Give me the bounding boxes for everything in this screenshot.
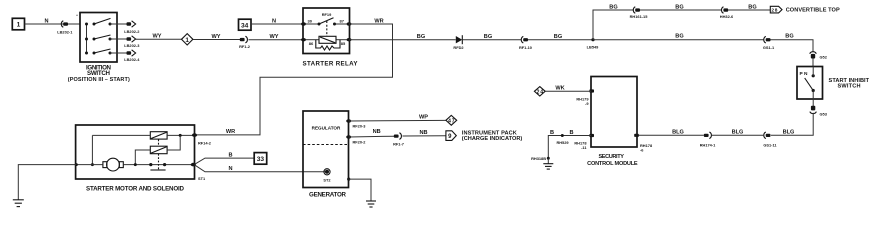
start inhibit switch xyxy=(797,67,823,100)
ignition switch pole 2 (row to LB202-3) xyxy=(93,35,127,41)
connector GS1-11 xyxy=(763,132,777,147)
node diamond 24 xyxy=(534,87,545,96)
svg-text:LB202-2: LB202-2 xyxy=(124,29,140,34)
ground (security module earth) xyxy=(543,158,553,169)
svg-text:WK: WK xyxy=(555,86,564,92)
wire BG from RF1-10 to junction LB549 xyxy=(528,39,593,41)
wire WY from LB202-3 to diamond 1 xyxy=(136,38,182,40)
pin 86 xyxy=(301,38,314,46)
pin 30 xyxy=(301,18,313,25)
svg-text:RF14-2: RF14-2 xyxy=(198,140,212,145)
wire to starter earth xyxy=(18,163,78,200)
svg-text:WR: WR xyxy=(226,129,235,135)
motor M1 (starter motor) xyxy=(103,158,123,171)
svg-text:BLG: BLG xyxy=(783,130,795,136)
wire B from RH178-11 to ground splice xyxy=(548,136,591,159)
wire WR from relay pin 87 to starter solenoid RF14-2 xyxy=(195,24,393,135)
pin RF14-2 xyxy=(192,133,212,145)
svg-text:WY: WY xyxy=(211,34,220,40)
wire BG from HH32-6 to node 28 xyxy=(728,9,770,11)
wire WY from RF1-2 to relay pin 86 xyxy=(249,39,304,41)
svg-text:BG: BG xyxy=(417,34,425,40)
junction dots on ignition bus xyxy=(85,23,88,26)
svg-text:WY: WY xyxy=(152,34,161,40)
wire BG from relay pin 85 to diode xyxy=(349,39,456,41)
label START INHIBIT SWITCH xyxy=(829,78,870,90)
node diamond 47 xyxy=(446,115,457,125)
svg-text:RH161-15: RH161-15 xyxy=(630,14,649,19)
wire BG from GS1-1 down to G52 xyxy=(771,40,814,52)
svg-text:WR: WR xyxy=(374,18,383,24)
relay switch contacts and blade xyxy=(306,18,348,26)
svg-text:STARTER MOTOR AND SOLENOID: STARTER MOTOR AND SOLENOID xyxy=(86,186,185,193)
ignition switch box xyxy=(76,13,117,63)
svg-text:33: 33 xyxy=(257,156,265,163)
pin 85 xyxy=(341,38,352,46)
svg-text:RF20-2: RF20-2 xyxy=(353,139,367,144)
ignition switch pole 1 (row to LB202-2) xyxy=(93,18,127,25)
pin ST2 xyxy=(323,169,331,183)
wire to generator earth xyxy=(347,178,371,202)
svg-text:RF1-7: RF1-7 xyxy=(393,141,404,146)
svg-text:SWITCH: SWITCH xyxy=(838,84,861,90)
node 9 (instrument pack feed) xyxy=(446,131,456,141)
wire WK from diamond 24 to RH179-9 xyxy=(545,90,591,92)
pin RH178-11 xyxy=(574,134,594,150)
svg-text:ST1: ST1 xyxy=(198,176,206,181)
svg-text:BG: BG xyxy=(554,34,562,40)
solenoid contacts and bar xyxy=(149,139,166,170)
svg-text:GS1-1: GS1-1 xyxy=(763,45,775,50)
junction RH318B xyxy=(531,156,550,161)
relay parallel resistor xyxy=(316,40,340,50)
wire NB from RF20-2 to RF1-7 xyxy=(349,135,394,138)
wire BLG from GS1-11 to RH174-1 xyxy=(712,134,764,136)
wire WP from RF20-3 to diamond 47 xyxy=(349,119,446,122)
svg-text:SWITCH: SWITCH xyxy=(87,70,111,77)
wire N from ST1 to generator ST2 xyxy=(195,165,327,172)
label IGNITION SWITCH (POSITION III - START) xyxy=(68,65,130,83)
svg-text:RF19: RF19 xyxy=(322,12,332,17)
svg-text:GS1-11: GS1-11 xyxy=(763,142,777,147)
wire N from box 1 to ignition switch xyxy=(25,23,81,25)
svg-text:28: 28 xyxy=(771,8,777,14)
connector RF1-2 xyxy=(239,36,251,49)
wire NB from RF1-7 to node 9 xyxy=(403,135,446,137)
svg-text:BG: BG xyxy=(785,33,793,39)
ignition switch pole 3 (row to LB202-4) xyxy=(93,49,127,55)
ground (generator earth) xyxy=(366,201,376,207)
svg-text:BG: BG xyxy=(609,4,617,10)
svg-text:RH318B: RH318B xyxy=(531,156,546,161)
connector LB202-1 xyxy=(57,21,73,35)
wire BLG from G53 down and left to GS1-11 xyxy=(771,113,813,136)
svg-text:RFD2: RFD2 xyxy=(453,45,464,50)
svg-text:BG: BG xyxy=(484,34,492,40)
wire: internal bus xyxy=(91,135,94,166)
connector LB202-3 xyxy=(124,36,140,48)
svg-text:86: 86 xyxy=(309,41,314,46)
svg-text:1: 1 xyxy=(185,37,189,44)
svg-text:LB202-1: LB202-1 xyxy=(57,29,73,34)
wire: coil 2 connections xyxy=(135,135,180,164)
svg-text:85: 85 xyxy=(341,41,346,46)
svg-text:LB202-3: LB202-3 xyxy=(124,43,140,48)
relay actuator dashed link xyxy=(326,21,328,36)
svg-text:-11: -11 xyxy=(581,145,587,150)
svg-text:BG: BG xyxy=(675,4,683,10)
svg-text:47: 47 xyxy=(448,118,455,124)
connector LB202-4 xyxy=(124,50,140,62)
connector G53 xyxy=(810,106,828,117)
ground (starter earth) xyxy=(13,200,24,207)
svg-text:LB549: LB549 xyxy=(587,44,600,49)
label INSTRUMENT PACK (CHARGE INDICATOR) xyxy=(462,130,523,142)
svg-text:RF1-2: RF1-2 xyxy=(239,44,251,49)
label SECURITY CONTROL MODULE xyxy=(587,154,638,167)
svg-text:BLG: BLG xyxy=(672,130,684,136)
svg-text:HH32-6: HH32-6 xyxy=(720,14,734,19)
svg-text:RH174-1: RH174-1 xyxy=(700,142,716,147)
wire: solenoid top feed xyxy=(92,134,194,137)
starter relay RF19 xyxy=(303,8,350,54)
svg-text:BG: BG xyxy=(748,4,756,10)
connector G52 xyxy=(810,52,828,60)
wire: main contact row xyxy=(76,163,192,166)
pin RF20-3 xyxy=(346,119,366,128)
diode RFD2 xyxy=(453,35,464,50)
svg-text:STARTER RELAY: STARTER RELAY xyxy=(303,60,359,67)
svg-text:REGULATOR: REGULATOR xyxy=(312,125,341,130)
svg-text:B: B xyxy=(569,130,573,136)
svg-text:B: B xyxy=(550,130,554,136)
svg-text:RF20-3: RF20-3 xyxy=(353,123,367,128)
svg-text:RF1-10: RF1-10 xyxy=(519,45,532,50)
wire: internal bus of ignition switch xyxy=(86,24,88,53)
wire BG from RH161-15 to HH32-6 xyxy=(640,9,722,11)
svg-text:1: 1 xyxy=(17,22,21,29)
svg-text:ST2: ST2 xyxy=(323,177,331,182)
svg-text:RH529: RH529 xyxy=(556,140,569,145)
svg-text:34: 34 xyxy=(241,22,249,29)
connector LB202-2 xyxy=(124,21,140,34)
svg-text:CONVERTIBLE TOP: CONVERTIBLE TOP xyxy=(786,7,840,13)
svg-text:(POSITION III – START): (POSITION III – START) xyxy=(68,77,130,83)
wire WY from diamond 1 to RF1-2 xyxy=(193,39,240,41)
svg-text:BLG: BLG xyxy=(732,130,744,136)
svg-text:G52: G52 xyxy=(820,54,828,59)
svg-text:24: 24 xyxy=(537,89,544,95)
connector RH174-1 xyxy=(700,132,716,147)
pin RF20-2 xyxy=(346,135,366,144)
svg-text:P N: P N xyxy=(800,71,808,77)
node 33 (circuit reference box 33) xyxy=(254,153,267,165)
wire B from ST1 to box 33 xyxy=(195,158,254,164)
wire BG from diode to RF1-10 xyxy=(462,39,521,41)
security control module xyxy=(591,77,637,148)
svg-text:G53: G53 xyxy=(820,112,828,117)
wire N from box 34 to relay pin 30 xyxy=(251,23,303,25)
node 28 (convertible top feed) xyxy=(770,6,782,13)
node 34 (circuit reference box 34) xyxy=(239,19,252,30)
generator xyxy=(303,111,349,188)
svg-text:SECURITY: SECURITY xyxy=(598,154,624,160)
svg-text:30: 30 xyxy=(308,18,313,23)
pin ST1 xyxy=(191,163,206,181)
svg-text:NB: NB xyxy=(419,130,427,136)
starter motor and solenoid xyxy=(76,125,195,179)
svg-text:B: B xyxy=(228,152,232,158)
solenoid coil 2 xyxy=(150,146,167,154)
svg-text:WP: WP xyxy=(419,114,428,120)
wire BG branch up from LB549 to convertible top feed xyxy=(593,10,634,40)
pin 87 xyxy=(340,18,352,25)
svg-text:BG: BG xyxy=(675,34,683,40)
svg-text:(CHARGE INDICATOR): (CHARGE INDICATOR) xyxy=(462,136,523,142)
wire from switch to G53 xyxy=(812,99,814,106)
svg-text:LB202-4: LB202-4 xyxy=(124,57,140,62)
wire from G52 to start inhibit switch xyxy=(812,59,814,67)
connector RF1-7 xyxy=(393,133,404,147)
connector GS1-1 xyxy=(763,36,775,50)
svg-text:CONTROL MODULE: CONTROL MODULE xyxy=(587,161,638,167)
svg-text:WY: WY xyxy=(269,34,278,40)
junction LB549 xyxy=(587,38,600,49)
junction RH529 xyxy=(556,134,569,145)
wire BG from LB549 to GS1-1 xyxy=(593,39,764,41)
connector RH161-15 xyxy=(630,7,649,19)
pin RH179-9 xyxy=(576,89,594,106)
svg-text:NB: NB xyxy=(373,129,381,135)
relay coil xyxy=(306,36,348,43)
svg-text:87: 87 xyxy=(340,18,345,23)
svg-text:N: N xyxy=(228,166,232,172)
node diamond 1 xyxy=(182,34,193,45)
node 1 (circuit reference box 1) xyxy=(12,18,24,30)
connector HH32-6 xyxy=(720,7,734,19)
wire BLG from RH174-1 to security module pin RH178-6 xyxy=(637,134,704,136)
solenoid coil 1 xyxy=(150,132,167,139)
svg-text:N: N xyxy=(44,18,48,24)
connector RF1-10 xyxy=(519,36,532,50)
svg-text:GENERATOR: GENERATOR xyxy=(309,191,347,198)
pin RH178-6 xyxy=(634,134,653,153)
svg-text:N: N xyxy=(272,18,276,24)
